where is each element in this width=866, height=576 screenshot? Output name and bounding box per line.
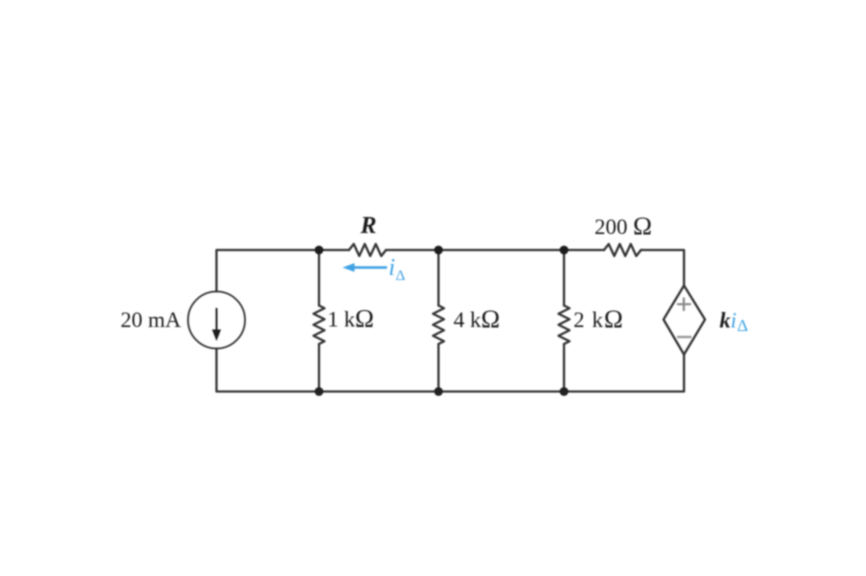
svg-text:R: R <box>359 213 376 239</box>
wire branch 1k top lead <box>318 250 320 306</box>
node dot top 2 <box>434 246 443 255</box>
plus sign in dependent source <box>677 298 691 312</box>
wire top-right corner down to dependent source <box>641 250 684 286</box>
resistor 200 ohm <box>604 244 641 256</box>
wire branch 4k bottom lead <box>437 344 439 392</box>
node dot bottom 2 <box>434 387 443 396</box>
svg-text:2 kΩ: 2 kΩ <box>574 304 624 333</box>
wire branch 2k top lead <box>563 250 565 306</box>
svg-text:200 Ω: 200 Ω <box>595 211 652 240</box>
node dot bottom 1 <box>315 387 324 396</box>
current arrow i-delta (blue) <box>343 263 388 272</box>
resistor 4 kohm <box>433 306 444 345</box>
svg-text:iΔ: iΔ <box>389 255 406 284</box>
wire branch 4k top lead <box>437 250 439 306</box>
dependent source diamond <box>664 286 706 355</box>
wire node2 to 200 ohm <box>386 249 604 251</box>
node dot bottom 3 <box>560 387 569 396</box>
wire branch 2k bottom lead <box>563 344 565 392</box>
node dot top 1 <box>315 246 324 255</box>
svg-text:20 mA: 20 mA <box>121 307 182 332</box>
resistor R <box>349 244 386 256</box>
current source circle <box>188 292 245 349</box>
resistor 2 kohm <box>559 306 570 345</box>
svg-text:4 kΩ: 4 kΩ <box>454 304 500 333</box>
svg-text:1 kΩ: 1 kΩ <box>328 304 374 333</box>
svg-text:kiΔ: kiΔ <box>720 308 749 336</box>
wire top-left: left rail top to resistor R <box>217 250 350 292</box>
wire branch 1k bottom lead <box>318 344 320 392</box>
node dot top 3 <box>560 246 569 255</box>
current source arrow <box>212 308 221 341</box>
minus sign in dependent source <box>677 336 692 338</box>
resistor 1 kohm <box>314 306 325 345</box>
wire dependent source bottom to bottom rail <box>217 349 685 392</box>
